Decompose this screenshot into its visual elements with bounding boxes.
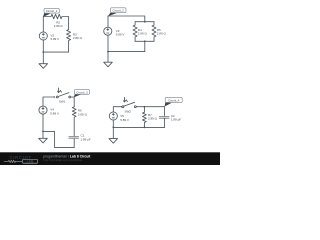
svg-text:Circuit_2: Circuit_2: [112, 9, 124, 13]
svg-text:2.89 Ω: 2.89 Ω: [157, 31, 167, 35]
svg-text:1.89 µF: 1.89 µF: [171, 117, 181, 121]
svg-text:SW2: SW2: [124, 110, 131, 114]
svg-text:Circuit_4: Circuit_4: [168, 98, 180, 102]
svg-text:5.89 V: 5.89 V: [50, 111, 59, 115]
svg-text:2.89 Ω: 2.89 Ω: [138, 31, 148, 35]
svg-text:5.89 V: 5.89 V: [120, 118, 129, 122]
svg-text:2.89 Ω: 2.89 Ω: [148, 116, 158, 120]
svg-text:Circuit_1: Circuit_1: [46, 9, 58, 13]
svg-text:2.89 Ω: 2.89 Ω: [73, 36, 83, 40]
svg-text:http://circuitlab.com/c/p2q9wt: http://circuitlab.com/c/p2q9wte: [43, 158, 82, 162]
svg-text:5.89 V: 5.89 V: [116, 33, 125, 37]
svg-text:5.89 V: 5.89 V: [51, 37, 60, 41]
svg-text:2.89 Ω: 2.89 Ω: [54, 24, 64, 28]
svg-text:LAB: LAB: [27, 160, 34, 164]
svg-text:Circuit_3: Circuit_3: [76, 90, 88, 94]
svg-text:2.89 Ω: 2.89 Ω: [78, 113, 88, 117]
svg-text:1.89 µF: 1.89 µF: [81, 137, 91, 141]
svg-text:SW1: SW1: [59, 100, 66, 104]
